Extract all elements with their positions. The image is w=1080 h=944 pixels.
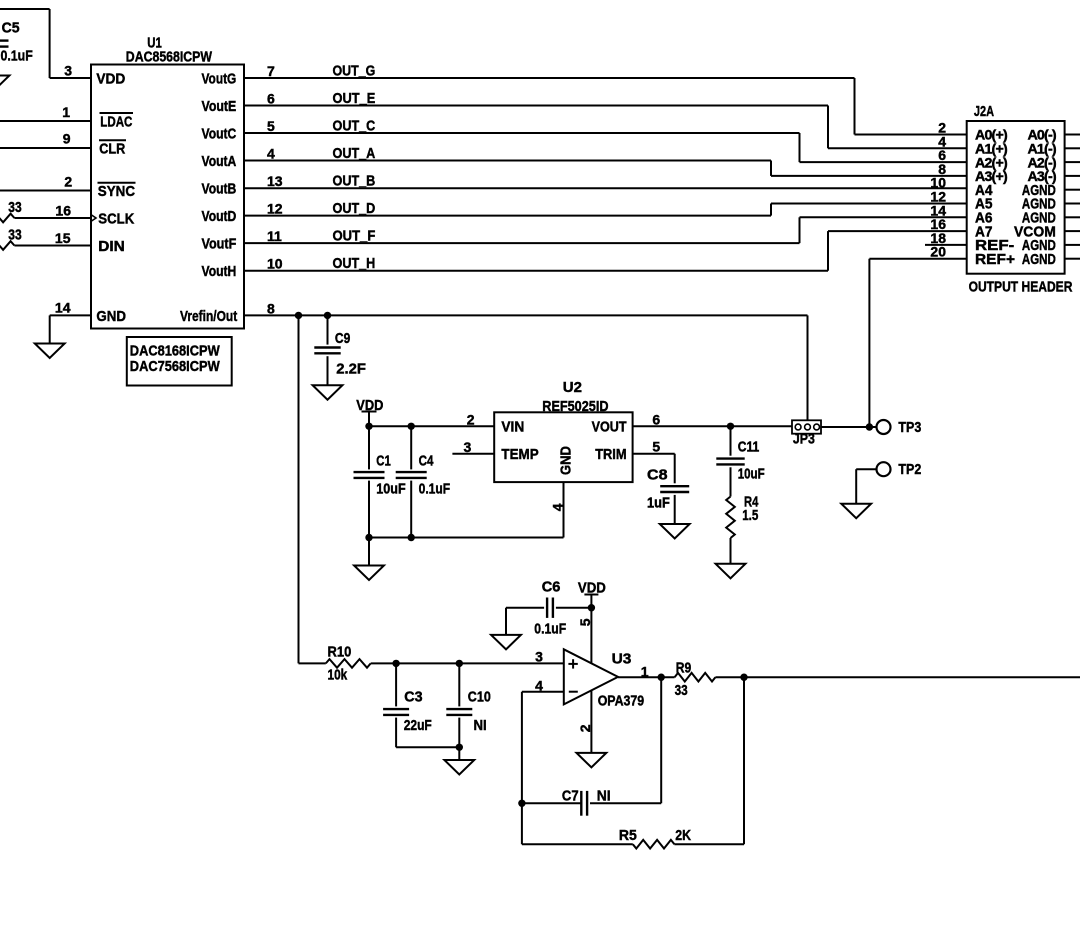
U1 pin number 16 [55, 203, 71, 219]
svg-text:0.1uF: 0.1uF [1, 48, 33, 65]
junction output/C7 [658, 674, 665, 681]
U1 pin name VoutB [202, 180, 237, 197]
wire TEMP pin 3 stub [452, 453, 494, 455]
U1 pin name DIN [98, 238, 125, 255]
wire C10 to ground [458, 747, 460, 760]
U1 pin name VoutD [202, 208, 237, 225]
J2A pin name A5 [975, 196, 993, 213]
wire OUT_G [244, 78, 967, 135]
U1 pin number 8 [267, 300, 275, 316]
U1 pin name Vrefin/Out [180, 308, 237, 325]
U1 pin number 5 [267, 118, 275, 134]
U1 pin number 15 [55, 230, 71, 246]
svg-text:10uF: 10uF [738, 466, 765, 483]
svg-text:C6: C6 [542, 578, 561, 595]
svg-text:OUT_E: OUT_E [333, 90, 376, 107]
U1 pin number 1 [62, 104, 70, 120]
U1 pin number 10 [267, 256, 283, 272]
junction C4 [408, 423, 415, 430]
svg-text:5: 5 [577, 618, 593, 626]
wire OUT_B [244, 187, 967, 189]
svg-text:NI: NI [597, 788, 611, 805]
wire GND pin 14 [50, 315, 91, 343]
capacitor C8 [647, 467, 689, 524]
svg-text:REF+: REF+ [975, 251, 1015, 268]
J2A pin name AGND (right column) [1022, 251, 1056, 268]
wire SYNC pin 2 [0, 190, 91, 192]
wire REF- stub [925, 244, 967, 246]
wire OUT_D [244, 204, 967, 216]
svg-text:DAC8568ICPW: DAC8568ICPW [126, 48, 213, 65]
junction C3/C10 ground [456, 744, 463, 751]
svg-text:33: 33 [675, 682, 688, 699]
svg-text:C1: C1 [376, 453, 391, 470]
svg-text:OUT_D: OUT_D [333, 200, 376, 217]
svg-text:LDAC: LDAC [100, 113, 132, 130]
net label OUT_E [333, 90, 376, 107]
J2A pin number 2 [938, 120, 946, 136]
power symbol VDD (U2 input) [356, 397, 383, 426]
svg-text:AGND: AGND [1022, 251, 1056, 268]
wire output to C7 [660, 677, 662, 803]
U3 pin number 1 [641, 663, 649, 679]
svg-text:13: 13 [267, 173, 283, 189]
J2A pin name A2(-) (right column) [1027, 155, 1056, 171]
svg-text:VoutE: VoutE [202, 98, 237, 115]
svg-text:6: 6 [267, 91, 275, 107]
ground below U3 [577, 753, 607, 768]
wire DIN pin 15 [14, 245, 91, 247]
svg-text:6: 6 [652, 411, 660, 427]
J2A pin name A0(-) (right column) [1027, 128, 1056, 144]
wire U3 output [618, 676, 675, 678]
net label OUT_B [333, 172, 376, 189]
svg-text:C10: C10 [468, 688, 491, 705]
J2A pin name A1(-) (right column) [1027, 142, 1056, 158]
svg-text:2K: 2K [675, 827, 691, 844]
wire J2A right pin row 7 [1065, 216, 1080, 218]
svg-text:VOUT: VOUT [592, 419, 627, 436]
svg-text:0.1uF: 0.1uF [534, 620, 566, 637]
junction C7/feedback [518, 800, 525, 807]
svg-text:20: 20 [930, 244, 946, 260]
resistor 33 (partial) on DIN [0, 226, 22, 250]
wire VDD to U3 pin 5 [590, 595, 592, 664]
svg-text:9: 9 [63, 131, 71, 147]
svg-text:C4: C4 [419, 453, 434, 470]
U3 pin number 5 (rotated) [577, 618, 593, 626]
svg-text:16: 16 [55, 203, 71, 219]
wire SCLK pin 16 [14, 215, 96, 222]
svg-text:C3: C3 [404, 688, 422, 705]
test point TP3 [877, 419, 922, 436]
wire J2A right pin row 9 [1065, 244, 1080, 246]
svg-text:CLR: CLR [99, 140, 125, 157]
J2A pin name VCOM (right column) [1014, 223, 1056, 240]
svg-text:33: 33 [8, 199, 21, 216]
ground below C1/C4 rail [354, 566, 384, 581]
svg-text:TRIM: TRIM [595, 446, 626, 463]
power symbol VDD (U3 supply) [578, 580, 606, 597]
svg-text:22uF: 22uF [404, 717, 432, 734]
svg-text:2: 2 [467, 411, 475, 427]
svg-text:3: 3 [535, 648, 543, 664]
wire J2A right pin row 10 [1065, 258, 1080, 260]
svg-text:4: 4 [267, 146, 275, 162]
wire J2A right pin row 5 [1065, 189, 1080, 191]
wire C1 rail to ground [368, 538, 370, 566]
capacitor C1 [354, 426, 406, 537]
svg-text:7: 7 [267, 63, 275, 79]
svg-text:NI: NI [474, 717, 487, 734]
capacitor C4 [396, 426, 451, 537]
capacitor C7 [522, 788, 661, 816]
svg-text:OUT_G: OUT_G [333, 62, 376, 79]
U1 pin name VoutF [202, 236, 237, 253]
svg-text:VDD: VDD [96, 70, 125, 87]
svg-text:15: 15 [55, 230, 71, 246]
U2 pin number 5 [652, 439, 660, 455]
U3 pin number 2 (rotated) [577, 724, 593, 732]
junction C4 rail [408, 534, 415, 541]
svg-text:OUT_A: OUT_A [333, 145, 376, 162]
U2 pin name VOUT [592, 419, 627, 436]
svg-text:2.2F: 2.2F [336, 361, 366, 378]
wire ground rail under C1/C4 [369, 537, 564, 539]
capacitor C6 [506, 578, 591, 637]
J2A pin name A2(+) [975, 155, 1008, 171]
net label OUT_C [333, 117, 376, 134]
svg-text:14: 14 [55, 299, 71, 315]
wire C6 to ground [505, 608, 507, 635]
junction VDD/C6 [588, 604, 595, 611]
net label OUT_H [333, 255, 376, 272]
U1 pin number 2 [64, 174, 72, 190]
svg-text:VoutG: VoutG [202, 70, 237, 87]
U1 pin name GND [96, 308, 126, 325]
U1 pin name VoutE [202, 98, 237, 115]
J2A pin number 6 [938, 147, 946, 163]
J2A pin name AGND (right column) [1022, 182, 1056, 199]
svg-text:R10: R10 [328, 644, 352, 661]
U1 pin number 7 [267, 63, 275, 79]
svg-text:J2A: J2A [974, 103, 994, 120]
wire Vrefin to R10 [298, 315, 300, 663]
junction at R10 branch [295, 312, 302, 319]
wire OUT_E [244, 106, 967, 149]
U2 pin name VIN [501, 419, 524, 436]
U1 pin name LDAC with overline [100, 113, 134, 130]
wire J2A right pin row 3 [1065, 161, 1080, 163]
U1 pin name VoutH [202, 263, 237, 280]
U2 pin number 3 [464, 439, 472, 455]
wire OUT_H [244, 231, 967, 271]
IC U2 box REF5025ID [494, 379, 632, 482]
wire TRIM to C8 [633, 454, 675, 484]
U1 pin number 12 [267, 201, 283, 217]
wire J2A right pin row 6 [1065, 203, 1080, 205]
U1 pin number 4 [267, 146, 275, 162]
capacitor C10 [446, 663, 491, 747]
junction VOUT/C11 [727, 423, 734, 430]
U2 pin number 2 [467, 411, 475, 427]
junction C1 rail [365, 534, 372, 541]
svg-text:10uF: 10uF [376, 480, 405, 497]
J2A pin name A1(+) [975, 142, 1008, 158]
J2A pin number 14 [930, 202, 946, 218]
wire J2A right pin row 2 [1065, 147, 1080, 149]
J2A pin number 18 [930, 230, 946, 246]
svg-text:OUTPUT HEADER: OUTPUT HEADER [969, 279, 1073, 296]
wire VDD net to U1 pin 3 [0, 9, 91, 78]
svg-text:10: 10 [267, 256, 283, 272]
J2A pin name AGND (right column) [1022, 237, 1056, 254]
svg-text:OUT_B: OUT_B [333, 172, 376, 189]
wire OUT_A [244, 161, 967, 176]
svg-text:VDD: VDD [356, 397, 383, 414]
svg-text:VDD: VDD [578, 580, 606, 597]
net label OUT_D [333, 200, 376, 217]
svg-text:VoutH: VoutH [202, 263, 237, 280]
wire U3 inverting input [522, 692, 564, 845]
svg-text:2: 2 [577, 724, 593, 732]
junction VDD/C1 [365, 423, 372, 430]
svg-text:SCLK: SCLK [98, 210, 134, 227]
svg-text:U2: U2 [563, 379, 582, 396]
U1 pin name CLR with overline [99, 140, 126, 157]
svg-text:VoutF: VoutF [202, 236, 237, 253]
svg-text:DAC7568ICPW: DAC7568ICPW [130, 358, 221, 375]
svg-text:11: 11 [267, 228, 282, 244]
svg-text:VoutB: VoutB [202, 180, 237, 197]
resistor R10 [299, 644, 564, 684]
svg-text:GND: GND [558, 446, 575, 475]
wire U3 pin 2 to ground [590, 690, 592, 753]
U2 pin name TRIM [595, 446, 626, 463]
svg-text:C8: C8 [647, 467, 668, 484]
U1 pin name VoutC [202, 125, 237, 142]
op-amp U3 triangle [564, 649, 644, 709]
junction REF+ vertical [866, 423, 873, 430]
svg-text:JP3: JP3 [793, 430, 815, 447]
svg-text:0.1uF: 0.1uF [419, 480, 451, 497]
U3 pin number 4 [535, 677, 543, 693]
svg-text:VoutC: VoutC [202, 125, 237, 142]
J2A pin name A7 [975, 223, 993, 240]
svg-text:OUT_H: OUT_H [333, 255, 376, 272]
wire J2A right pin row 1 [1065, 134, 1080, 136]
U3 pin number 3 [535, 648, 543, 664]
svg-text:U3: U3 [612, 651, 632, 668]
wire U2 GND pin 4 [563, 482, 565, 537]
U1 pin number 3 [64, 63, 72, 79]
connector J2A box [967, 103, 1065, 274]
svg-text:VoutD: VoutD [202, 208, 237, 225]
U1 pin number 13 [267, 173, 283, 189]
resistor R4 [726, 493, 759, 563]
svg-text:SYNC: SYNC [98, 183, 135, 200]
ground (partial, below C5) [0, 76, 9, 91]
svg-text:12: 12 [267, 201, 283, 217]
wire U2 VOUT net [633, 425, 792, 427]
svg-text:C9: C9 [335, 330, 350, 347]
wire JP3 to TP3 [821, 426, 876, 428]
net label OUT_A [333, 145, 376, 162]
net label OUT_F [333, 228, 376, 245]
wire OUT_C [244, 133, 967, 162]
ground at U1 GND [35, 344, 65, 359]
junction R9/R5 [740, 674, 747, 681]
wire Vrefin/Out net [244, 315, 808, 420]
jumper JP3 [792, 420, 821, 447]
svg-text:VIN: VIN [501, 419, 524, 436]
svg-text:OUT_F: OUT_F [333, 228, 376, 245]
net label OUT_G [333, 62, 376, 79]
capacitor C9 [314, 315, 366, 385]
capacitor C5 (partial, off-page) [0, 20, 33, 65]
wire J2A right pin row 4 [1065, 175, 1080, 177]
U1 pin name SCLK [98, 210, 134, 227]
junction C3 [392, 660, 399, 667]
J2A pin name AGND (right column) [1022, 196, 1056, 213]
J2A pin name A0(+) [975, 128, 1008, 144]
wire TP2 to ground [856, 469, 876, 504]
wire REF+ [869, 259, 966, 427]
J2A pin number 4 [938, 133, 946, 149]
J2A pin name A3(-) (right column) [1027, 169, 1056, 185]
J2A pin name AGND (right column) [1022, 210, 1056, 227]
ground below C9 [313, 385, 343, 400]
svg-text:Vrefin/Out: Vrefin/Out [180, 308, 237, 325]
wire OUT_F [244, 217, 967, 243]
svg-text:REF5025ID: REF5025ID [542, 398, 608, 415]
J2A pin name A6 [975, 210, 993, 227]
svg-text:3: 3 [64, 63, 72, 79]
test point TP2 [877, 461, 922, 478]
wire LDAC pin 1 [0, 120, 91, 122]
U1 pin number 9 [63, 131, 71, 147]
ground below TP2 [841, 504, 871, 519]
svg-text:5: 5 [652, 439, 660, 455]
svg-text:1uF: 1uF [647, 494, 670, 511]
J2A pin name REF- [975, 237, 1014, 254]
U1 pin number 6 [267, 91, 275, 107]
IC U1 box DAC8568ICPW [91, 35, 244, 329]
U2 pin number 4 (rotated) [549, 503, 565, 511]
svg-text:TEMP: TEMP [501, 446, 538, 463]
U1 pin name VoutG [202, 70, 237, 87]
U1 pin name VoutA [202, 153, 237, 170]
J2A pin number 16 [930, 216, 946, 232]
svg-text:33: 33 [8, 226, 21, 243]
U2 pin number 6 [652, 411, 660, 427]
U1 pin name SYNC with overline [98, 183, 136, 200]
wire J2A right pin row 8 [1065, 230, 1080, 232]
U2 pin name GND (rotated) [558, 446, 575, 475]
J2A pin number 8 [938, 161, 946, 177]
J2A pin number 20 [930, 244, 946, 260]
label OUTPUT HEADER [969, 279, 1073, 296]
wire CLR pin 9 [0, 147, 91, 149]
svg-text:5: 5 [267, 118, 275, 134]
svg-text:C7: C7 [562, 788, 579, 805]
wire VDD to U2 VIN [369, 425, 494, 427]
svg-text:R5: R5 [619, 827, 637, 844]
svg-text:C11: C11 [738, 439, 760, 456]
J2A pin number 12 [930, 189, 946, 205]
ground below C6 [491, 635, 521, 650]
svg-text:10k: 10k [328, 666, 348, 683]
capacitor C3 [383, 663, 459, 747]
svg-text:R9: R9 [676, 660, 692, 677]
ground below C8 [660, 524, 690, 539]
U1 pin name VDD [96, 70, 125, 87]
junction at C9 [324, 312, 331, 319]
junction C10 [456, 660, 463, 667]
alternate part box DAC8168ICPW / DAC7568ICPW [127, 337, 232, 386]
svg-text:OPA379: OPA379 [598, 693, 645, 710]
ground below C10 [444, 760, 474, 775]
svg-text:DIN: DIN [98, 238, 125, 255]
svg-text:TP3: TP3 [898, 419, 921, 436]
J2A pin name REF+ [975, 251, 1015, 268]
svg-text:3: 3 [464, 439, 472, 455]
resistor R5 [522, 677, 744, 848]
svg-text:2: 2 [64, 174, 72, 190]
J2A pin number 10 [930, 175, 946, 191]
J2A pin name A4 [975, 182, 993, 199]
capacitor C11 [716, 426, 764, 496]
svg-text:VoutA: VoutA [202, 153, 237, 170]
U2 pin name TEMP [501, 446, 538, 463]
J2A pin name A3(+) [975, 169, 1008, 185]
resistor 33 (partial) on SCLK [0, 199, 22, 223]
svg-text:OUT_C: OUT_C [333, 117, 376, 134]
svg-text:TP2: TP2 [898, 461, 921, 478]
svg-text:GND: GND [96, 308, 126, 325]
U1 pin number 11 [267, 228, 282, 244]
svg-text:8: 8 [267, 300, 275, 316]
resistor R9 [675, 660, 1080, 699]
svg-text:1.5: 1.5 [742, 507, 758, 524]
svg-text:C5: C5 [2, 20, 20, 37]
ground below R4 [716, 564, 746, 579]
U1 pin number 14 [55, 299, 71, 315]
svg-text:1: 1 [62, 104, 70, 120]
